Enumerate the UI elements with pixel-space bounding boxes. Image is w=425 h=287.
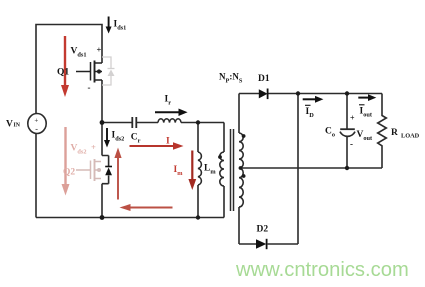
svg-text:D1: D1 [258, 74, 270, 84]
svg-text:Lm: Lm [204, 164, 216, 176]
svg-text:+: + [34, 116, 38, 124]
svg-text:Q2: Q2 [63, 168, 75, 178]
svg-text:+: + [91, 142, 96, 152]
svg-text:V: V [6, 120, 13, 130]
svg-text:-: - [88, 83, 91, 93]
svg-text:R: R [391, 128, 398, 138]
svg-text:-: - [350, 139, 353, 149]
svg-text:+: + [350, 114, 355, 123]
svg-text:Ir: Ir [165, 95, 172, 107]
svg-text:IN: IN [14, 123, 21, 129]
svg-text:ID: ID [306, 107, 315, 119]
svg-text:I: I [166, 137, 170, 147]
svg-text:Vout: Vout [357, 130, 374, 142]
svg-text:NP:NS: NP:NS [219, 72, 243, 85]
svg-text:Vds2: Vds2 [71, 144, 87, 156]
svg-text:-: - [35, 125, 38, 134]
svg-text:Cr: Cr [131, 133, 141, 145]
svg-text:Iout: Iout [360, 107, 373, 119]
svg-text:D2: D2 [257, 225, 269, 235]
svg-text:LOAD: LOAD [401, 133, 420, 140]
svg-text:www.cntronics.com: www.cntronics.com [235, 259, 409, 281]
svg-text:Ids2: Ids2 [112, 131, 125, 143]
svg-text:Q1: Q1 [57, 68, 69, 78]
svg-text:Vds1: Vds1 [71, 47, 87, 59]
svg-text:Im: Im [174, 165, 184, 177]
svg-text:Co: Co [325, 127, 335, 139]
svg-text:+: + [97, 45, 102, 55]
svg-text:Ids1: Ids1 [114, 20, 127, 32]
